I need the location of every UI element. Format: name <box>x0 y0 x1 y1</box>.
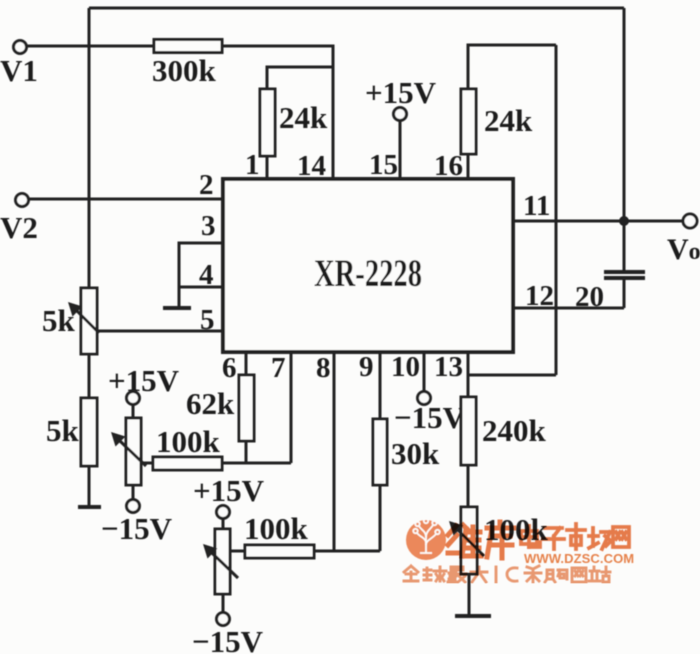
svg-text:8: 8 <box>316 352 331 384</box>
wire pin 11 to output <box>515 220 683 223</box>
char C <box>507 568 517 581</box>
potentiometer RP3 wiper arrow <box>203 544 238 578</box>
wire RP4 to ground <box>468 574 471 615</box>
wire pin 6 <box>245 354 248 375</box>
op-amp U1 XR-2228 box <box>223 179 513 352</box>
svg-text:24k: 24k <box>484 103 533 138</box>
resistor 24k R3 (pin 16) <box>461 89 476 154</box>
svg-text:16: 16 <box>434 150 463 182</box>
char 网 <box>613 527 629 547</box>
resistor 62k R6 <box>239 375 254 441</box>
char 子 <box>543 528 564 549</box>
potentiometer RP2 wiper arrow <box>111 432 146 466</box>
svg-text:+15V: +15V <box>193 473 265 508</box>
wire RP3 wiper to 100k R8 <box>230 550 245 553</box>
wire 24k R2 to pin 1 <box>266 156 269 177</box>
node output junction <box>619 216 629 226</box>
svg-text:3: 3 <box>201 210 216 242</box>
watermark text 维库 <box>448 522 514 558</box>
terminal -15V pin10 <box>418 392 431 405</box>
wire stub below pin4 bracket <box>178 287 181 308</box>
svg-text:10: 10 <box>391 351 420 383</box>
wire pin 10 <box>423 354 426 392</box>
svg-text:24k: 24k <box>279 100 328 135</box>
resistor 30k R7 <box>373 419 387 485</box>
wire pin 7 <box>290 354 293 463</box>
wire RP3 to -15V terminal <box>222 594 225 613</box>
wire pin13 to right rail <box>468 374 556 377</box>
wire top feedback rail <box>89 7 624 10</box>
potentiometer 5k RP1 wiper arrow <box>68 302 99 333</box>
wire 100k R5 to pin7 line <box>222 462 291 465</box>
wire 62k to node <box>245 441 248 464</box>
node stub bar <box>163 306 191 310</box>
svg-text:WWW.DZSC.COM: WWW.DZSC.COM <box>524 551 634 566</box>
char 网 <box>572 568 586 582</box>
char 维 <box>448 525 481 556</box>
wire 300k to pin 14 corner <box>222 46 333 177</box>
wire 240k to RP4 <box>467 465 470 507</box>
svg-text:5k: 5k <box>46 413 80 448</box>
char 电 <box>521 526 540 547</box>
wire V2 to pin 2 <box>28 198 221 201</box>
wire capacitor to pin 12 row <box>623 280 626 308</box>
wire 24k R3 top to right rail <box>468 45 556 89</box>
wire left vertical from top rail down to 5k pot <box>88 8 91 288</box>
wire pin 12 <box>515 307 624 310</box>
wire RP2 to -15V terminal <box>132 485 135 500</box>
svg-text:V2: V2 <box>0 210 38 245</box>
wire 30k to node <box>379 485 382 551</box>
wire node to capacitor C1 <box>623 221 626 270</box>
wire +15V to pin 15 <box>399 120 402 177</box>
char 球 <box>424 567 446 581</box>
wire +15V to RP3 <box>222 518 225 529</box>
ground <box>455 614 491 618</box>
resistor 100k R8 <box>245 545 314 558</box>
watermark group <box>404 519 634 582</box>
terminal V1 <box>14 41 27 54</box>
resistor 5k R4 <box>81 398 97 466</box>
svg-text:100k: 100k <box>244 511 309 546</box>
potentiometer 100k RP2 body <box>126 418 141 485</box>
svg-text:9: 9 <box>359 351 374 383</box>
char 最 <box>448 567 466 582</box>
char 场 <box>589 528 611 549</box>
char 库 <box>487 522 514 558</box>
potentiometer 100k RP3 body <box>215 529 230 594</box>
wire V1 to resistor 300k <box>26 45 154 48</box>
resistor 240k R9 <box>461 397 476 465</box>
svg-text:300k: 300k <box>152 53 217 88</box>
watermark text 全球最大IC采购网站 <box>404 566 610 582</box>
svg-text:6: 6 <box>222 352 237 384</box>
potentiometer RP4 wiper arrow <box>449 521 484 556</box>
char 购 <box>545 570 567 582</box>
svg-text:1: 1 <box>245 149 260 181</box>
svg-text:Vo: Vo <box>667 233 700 266</box>
svg-text:+15V: +15V <box>365 75 437 110</box>
svg-text:5k: 5k <box>42 303 76 338</box>
svg-text:62k: 62k <box>186 386 235 421</box>
svg-text:−15V: −15V <box>394 400 466 435</box>
wire +15V to RP2 <box>132 404 135 418</box>
svg-text:XR-2228: XR-2228 <box>314 252 422 295</box>
wire pin 5 <box>88 330 221 333</box>
svg-text:14: 14 <box>297 150 326 182</box>
svg-text:11: 11 <box>523 190 550 222</box>
wire pin 8 <box>333 354 336 551</box>
capacitor C1 <box>604 272 645 278</box>
wire between 5k pot and 5k R4 <box>88 354 91 398</box>
resistor 100k R5 <box>153 457 222 470</box>
wire pin 9 <box>379 354 382 419</box>
potentiometer 100k RP4 body <box>461 507 477 574</box>
wire pin 13 <box>467 354 470 397</box>
char 站 <box>589 567 610 582</box>
wire node row pin8/pin9 <box>314 550 380 553</box>
svg-text:240k: 240k <box>482 413 547 448</box>
logo circle <box>406 520 446 560</box>
wire RP2 wiper to 100k R5 <box>141 462 153 465</box>
char 全 <box>404 566 418 581</box>
char 市 <box>567 524 585 549</box>
svg-text:−15V: −15V <box>192 624 264 654</box>
char 大 <box>471 567 487 582</box>
potentiometer 5k RP1 body <box>81 288 97 354</box>
svg-text:V1: V1 <box>0 53 38 88</box>
terminal +15V RP3 <box>217 506 230 519</box>
svg-text:15: 15 <box>369 149 398 181</box>
svg-text:−15V: −15V <box>101 511 173 546</box>
wire 24k R2 top link to pin14 line <box>267 67 333 89</box>
resistor 300k <box>154 40 222 53</box>
svg-text:100k: 100k <box>156 424 221 459</box>
wire right rail vertical to pin13 link <box>555 45 558 375</box>
char 采 <box>525 566 541 582</box>
svg-text:7: 7 <box>271 352 286 384</box>
terminal -15V RP3 <box>217 613 230 626</box>
svg-text:30k: 30k <box>391 436 440 471</box>
terminal Vo <box>683 214 697 228</box>
logo circuit tree icon <box>413 519 439 553</box>
watermark text 电子市场网 <box>521 524 629 549</box>
wire pin3-pin4 bracket <box>179 243 221 287</box>
wire 24k R3 to pin 16 <box>467 154 470 177</box>
terminal V2 <box>16 194 29 207</box>
wire right feedback drop to output node <box>623 8 626 221</box>
svg-text:+15V: +15V <box>108 363 180 398</box>
resistor 24k R2 (pin 1) <box>260 89 275 156</box>
terminal +15V pin15 <box>394 108 407 121</box>
terminal -15V RP2 <box>127 500 140 513</box>
svg-text:13: 13 <box>434 351 463 383</box>
char I <box>495 567 498 582</box>
ground bar under 5k R4 <box>78 505 101 509</box>
terminal +15V RP2 <box>127 392 140 405</box>
wire 5k R4 to end bar <box>88 466 91 506</box>
svg-text:2: 2 <box>199 169 214 201</box>
